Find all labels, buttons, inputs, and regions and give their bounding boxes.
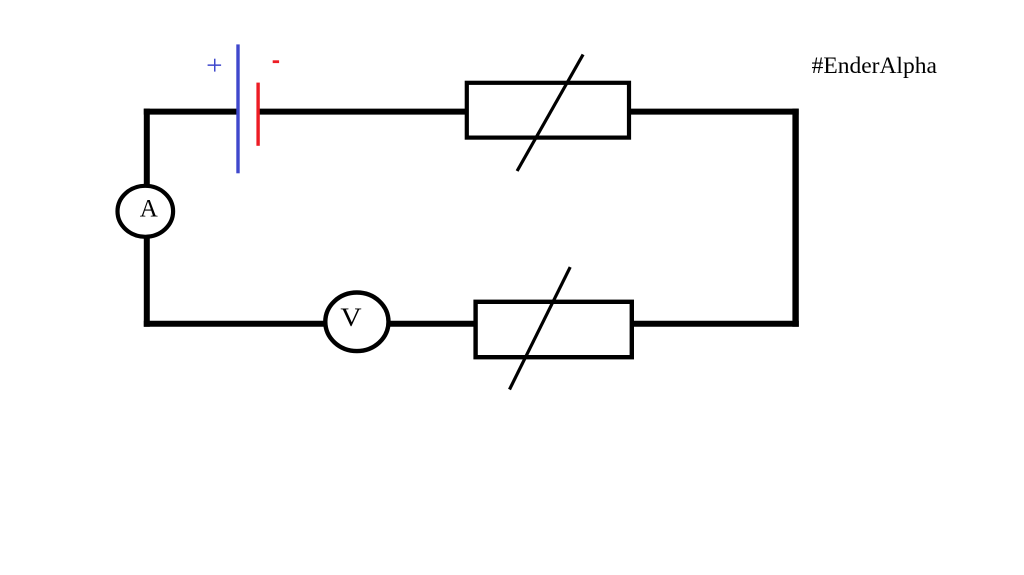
variable resistor R2 body (bottom): [476, 302, 632, 357]
wire top horizontal segment (battery - to top-right corner): [260, 109, 799, 115]
battery negative plate (short red): [256, 83, 259, 146]
variable resistor R2 diagonal arrow: [510, 267, 571, 389]
svg-text:V: V: [340, 303, 361, 332]
battery - label: [273, 60, 279, 63]
svg-text:#EnderAlpha: #EnderAlpha: [812, 53, 938, 79]
wire bottom horizontal segment: [144, 321, 799, 327]
variable resistor R1 body (top): [467, 83, 629, 138]
battery + label: [208, 59, 222, 72]
wire left vertical segment: [144, 109, 150, 327]
variable resistor R1 diagonal arrow: [517, 55, 583, 172]
battery positive plate (long blue): [236, 44, 239, 173]
voltmeter V body: [325, 293, 388, 352]
svg-text:A: A: [140, 196, 158, 223]
wire top-left horizontal segment (battery + to left corner): [144, 109, 237, 115]
ammeter A body: [118, 186, 174, 237]
wire right vertical segment: [792, 109, 798, 327]
